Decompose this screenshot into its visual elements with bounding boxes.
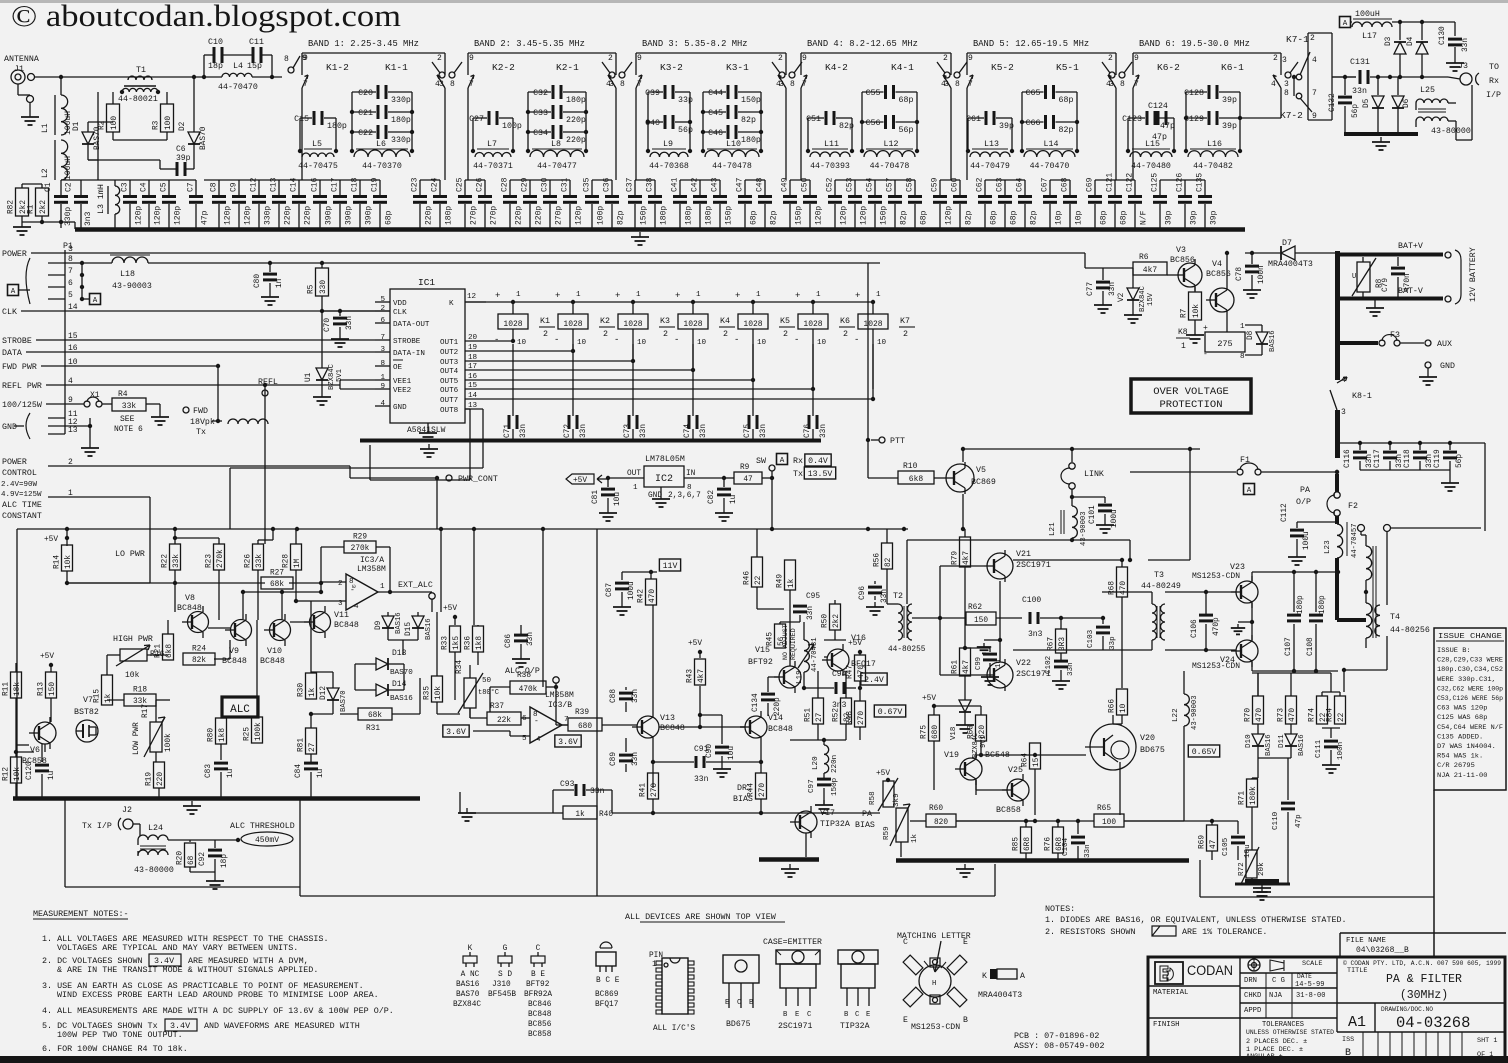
- svg-text:150: 150: [974, 617, 988, 625]
- svg-text:BC869: BC869: [595, 991, 619, 999]
- svg-text:ARE 1% TOLERANCE.: ARE 1% TOLERANCE.: [1182, 927, 1267, 937]
- svg-text:C5: C5: [160, 182, 169, 192]
- ground: [191, 801, 193, 806]
- wire tank drops: [635, 88, 637, 180]
- relay coil K6/2 1028: [811, 300, 815, 304]
- resistor R13: [46, 672, 57, 698]
- svg-text:43-90003: 43-90003: [112, 282, 152, 291]
- svg-text:82p: 82p: [770, 210, 779, 225]
- svg-text:A: A: [780, 457, 785, 465]
- svg-text:L9: L9: [663, 140, 673, 149]
- title block outer: [1148, 957, 1505, 1060]
- svg-text:POWER: POWER: [2, 250, 27, 259]
- svg-text:A NC: A NC: [461, 971, 480, 979]
- svg-text:47p: 47p: [201, 210, 210, 225]
- capacitor C97 150p: [823, 773, 825, 778]
- svg-text:33n: 33n: [632, 689, 640, 703]
- svg-text:BAS16: BAS16: [1265, 734, 1273, 756]
- relay contact K6-1 out: [1285, 72, 1291, 78]
- capacitor C126: [1184, 180, 1186, 195]
- transistor V20 BD675 darlington: [1090, 724, 1136, 770]
- svg-text:22: 22: [755, 575, 763, 585]
- gnd V21 V22 emitters: [999, 581, 1001, 662]
- svg-text:K3-1: K3-1: [726, 62, 749, 73]
- capacitor C111 100n: [1324, 740, 1338, 743]
- svg-text:150p: 150p: [880, 206, 889, 225]
- svg-text:68k: 68k: [368, 712, 382, 720]
- svg-text:14-5-99: 14-5-99: [1295, 981, 1324, 989]
- svg-text:D2: D2: [179, 121, 187, 131]
- svg-text:BZX84C: BZX84C: [453, 1001, 481, 1009]
- transistor V21 2SC1971: [987, 553, 1013, 579]
- svg-text:18p: 18p: [208, 62, 223, 71]
- svg-text:C63 WAS 120p: C63 WAS 120p: [1437, 705, 1487, 712]
- svg-text:C G: C G: [1272, 977, 1285, 985]
- svg-text:8: 8: [687, 484, 692, 492]
- svg-text:10u: 10u: [1244, 844, 1252, 858]
- svg-text:2: 2: [1108, 54, 1113, 63]
- tank L11 44-70393: [807, 118, 809, 151]
- svg-text:4k7: 4k7: [1143, 266, 1158, 275]
- resistor R42: [646, 579, 657, 605]
- svg-text:C125 WAS 68p: C125 WAS 68p: [1437, 714, 1487, 721]
- svg-text:15p: 15p: [247, 62, 262, 71]
- svg-text:C8: C8: [210, 182, 219, 192]
- svg-text:TO: TO: [1489, 63, 1499, 72]
- node feed: [202, 75, 206, 79]
- resistor R2 100: [112, 92, 114, 104]
- tank L16 44-70482: [1185, 92, 1187, 151]
- svg-text:B: B: [963, 1016, 968, 1025]
- svg-text:9: 9: [302, 54, 307, 63]
- capacitor C18: [359, 180, 361, 195]
- svg-text:2: 2: [1310, 34, 1315, 43]
- capacitor C128: [1186, 91, 1207, 93]
- svg-text:TOLERANCES: TOLERANCES: [1262, 1021, 1304, 1029]
- svg-text:BAS16: BAS16: [1298, 734, 1306, 756]
- svg-text:C4: C4: [140, 182, 149, 192]
- svg-text:2: 2: [778, 54, 783, 63]
- svg-text:L14: L14: [1044, 140, 1059, 149]
- svg-text:R1: R1: [28, 204, 36, 214]
- capacitor C107 180p: [1293, 572, 1295, 612]
- ground: [159, 412, 161, 417]
- capacitor C131 33n: [1332, 76, 1356, 78]
- svg-text:56p: 56p: [678, 126, 693, 135]
- svg-text:FINISH: FINISH: [1153, 1021, 1180, 1029]
- svg-text:CONSTANT: CONSTANT: [2, 512, 42, 521]
- capacitor C4: [148, 180, 150, 195]
- svg-text:C22: C22: [358, 129, 373, 138]
- svg-text:E: E: [963, 938, 968, 947]
- package BD675: [723, 955, 759, 983]
- svg-text:120p: 120p: [575, 206, 584, 225]
- svg-text:STROBE: STROBE: [2, 337, 32, 346]
- svg-text:6. FOR 100W CHANGE R4 TO 18k.: 6. FOR 100W CHANGE R4 TO 18k.: [42, 1044, 188, 1054]
- svg-text:C2: C2: [65, 182, 74, 192]
- svg-text:82p: 82p: [900, 210, 909, 225]
- svg-text:L2: L2: [41, 168, 50, 178]
- svg-text:1k: 1k: [788, 578, 796, 588]
- svg-text:180k: 180k: [1250, 786, 1258, 805]
- capacitor C56: [862, 121, 884, 123]
- svg-text:-: -: [794, 335, 799, 345]
- svg-text:MS1253-CDN: MS1253-CDN: [1192, 572, 1240, 581]
- svg-text:MS1253-CDN: MS1253-CDN: [1192, 662, 1240, 671]
- svg-text:D7: D7: [1282, 239, 1292, 248]
- +5V flag: [566, 474, 594, 484]
- svg-text:D8: D8: [1247, 330, 1255, 340]
- svg-text:NO ADJUST: NO ADJUST: [782, 624, 789, 660]
- svg-text:C59: C59: [931, 177, 940, 192]
- svg-text:K6: K6: [840, 317, 850, 326]
- svg-text:120p: 120p: [174, 206, 183, 225]
- capacitor C61: [968, 117, 984, 119]
- pot R34 50 t80C: [464, 678, 476, 708]
- resistor R28: [291, 544, 302, 570]
- svg-text:D11: D11: [1278, 734, 1286, 748]
- svg-text:BAS70: BAS70: [200, 126, 208, 150]
- wire mid bias rail: [659, 726, 745, 728]
- svg-text:8: 8: [790, 80, 795, 89]
- svg-text:1: 1: [816, 291, 821, 299]
- svg-text:R30: R30: [298, 683, 306, 697]
- svg-text:V7: V7: [83, 696, 93, 705]
- R85 R76 tops: [1024, 819, 1028, 823]
- svg-text:7: 7: [1312, 89, 1317, 98]
- svg-text:1028: 1028: [743, 320, 762, 329]
- wire R66 down: [1121, 715, 1123, 724]
- svg-text:BAND 1: 2.25-3.45 MHz: BAND 1: 2.25-3.45 MHz: [308, 39, 419, 49]
- resistor R73: [1286, 696, 1297, 724]
- svg-text:C28: C28: [501, 177, 510, 192]
- svg-text:K6-2: K6-2: [1157, 62, 1180, 73]
- svg-text:PCB : 07-01896-02: PCB : 07-01896-02: [1014, 1031, 1099, 1041]
- svg-text:C124: C124: [1148, 102, 1168, 111]
- svg-text:R81: R81: [298, 738, 306, 752]
- svg-text:8: 8: [1120, 80, 1125, 89]
- svg-text:G: G: [503, 945, 508, 953]
- svg-text:-: -: [854, 335, 859, 345]
- svg-text:44-70393: 44-70393: [810, 162, 850, 171]
- svg-text:VDD: VDD: [393, 300, 407, 308]
- svg-text:20k: 20k: [1258, 862, 1266, 876]
- svg-text:3: 3: [1282, 56, 1287, 65]
- terminal GND: [1425, 362, 1431, 368]
- capacitor C34: [528, 131, 551, 133]
- svg-text:180p: 180p: [705, 206, 714, 225]
- zener U1 BZX84C 5V1: [321, 311, 323, 368]
- svg-text:OUT1: OUT1: [440, 339, 459, 347]
- svg-text:150p: 150p: [795, 206, 804, 225]
- capacitor C68: [1069, 180, 1071, 195]
- resistor R52: [841, 698, 852, 724]
- capacitor C55: [862, 91, 884, 93]
- 12V battery bracket: [1455, 250, 1461, 304]
- svg-text:8: 8: [1284, 89, 1289, 98]
- svg-text:180p: 180p: [1319, 595, 1327, 614]
- svg-text:R33: R33: [442, 636, 450, 650]
- svg-text:E: E: [903, 1016, 908, 1025]
- wires V6: [44, 744, 46, 752]
- svg-text:39p: 39p: [1210, 210, 1219, 225]
- svg-text:270p: 270p: [490, 206, 499, 225]
- resistor R7 10k: [1194, 287, 1196, 292]
- svg-text:C32: C32: [533, 89, 548, 98]
- svg-text:1k8: 1k8: [476, 636, 484, 650]
- transformer T4 44-80256: [1358, 525, 1365, 532]
- capacitor C44: [703, 91, 726, 93]
- svg-text:V13: V13: [660, 714, 675, 723]
- ground: [214, 876, 216, 881]
- resistor R38 470k: [510, 681, 546, 694]
- svg-text:BC869: BC869: [971, 478, 996, 487]
- svg-text:R49: R49: [777, 574, 785, 588]
- svg-text:R50: R50: [822, 614, 830, 628]
- resistor R64: [1030, 743, 1041, 769]
- svg-text:C82: C82: [708, 490, 716, 504]
- svg-text:82: 82: [844, 712, 852, 722]
- capacitor C21: [352, 111, 376, 113]
- diode D14 BAS16: [355, 689, 376, 691]
- svg-text:C79: C79: [1382, 278, 1390, 292]
- transistor V24 MS1253-CDN: [1236, 640, 1258, 662]
- svg-text:220p: 220p: [566, 116, 586, 125]
- svg-text:BAS16: BAS16: [395, 612, 403, 634]
- svg-text:R31: R31: [366, 725, 380, 733]
- svg-text:2SC1971: 2SC1971: [1016, 561, 1051, 570]
- svg-text:2: 2: [783, 330, 788, 339]
- capacitor C46: [703, 131, 726, 133]
- capacitor C99 1u: [963, 646, 967, 650]
- svg-text:BFQ17: BFQ17: [595, 1001, 619, 1009]
- svg-text:1: 1: [1181, 342, 1186, 351]
- svg-text:VEE2: VEE2: [393, 387, 412, 395]
- relay coil K4/2 1028: [691, 300, 695, 304]
- svg-text:6k8: 6k8: [909, 475, 924, 484]
- transistor V13 BC848: [637, 716, 659, 738]
- svg-text:4: 4: [1312, 56, 1317, 65]
- svg-text:R58: R58: [869, 791, 877, 805]
- svg-text:470: 470: [1289, 708, 1297, 722]
- relay coil K2/2 1028: [571, 300, 575, 304]
- wire J3: [1448, 102, 1456, 104]
- svg-text:100p: 100p: [597, 206, 606, 225]
- resistor R85: [1021, 827, 1032, 853]
- T3 primary wires: [1102, 591, 1152, 593]
- capacitor C93 33n / R40 1k: [575, 784, 578, 796]
- capacitor C12: [258, 180, 260, 195]
- svg-text:MS1253-CDN: MS1253-CDN: [911, 1023, 960, 1032]
- svg-text:R24: R24: [192, 646, 206, 654]
- svg-text:44-70478: 44-70478: [870, 162, 910, 171]
- wire tank drops: [301, 88, 303, 180]
- svg-text:82p: 82p: [617, 210, 626, 225]
- ground: [1374, 300, 1376, 303]
- svg-text:44-70482: 44-70482: [1193, 162, 1233, 171]
- svg-text:5: 5: [68, 291, 73, 300]
- svg-text:33n: 33n: [580, 424, 588, 438]
- svg-text:C46: C46: [708, 129, 723, 138]
- svg-text:K2-1: K2-1: [556, 62, 579, 73]
- svg-text:R74: R74: [1309, 708, 1317, 722]
- svg-text:0.4V: 0.4V: [808, 457, 828, 466]
- svg-text:C118: C118: [1404, 449, 1412, 468]
- svg-text:V2: V2: [1118, 292, 1126, 302]
- svg-text:C86: C86: [505, 634, 513, 648]
- resistor R5 330: [320, 261, 324, 265]
- svg-text:ALC_O/P: ALC_O/P: [505, 666, 540, 676]
- svg-text:18p: 18p: [221, 854, 229, 868]
- svg-text:C95: C95: [806, 593, 820, 601]
- svg-text:33k: 33k: [256, 554, 264, 568]
- svg-text:R19: R19: [146, 772, 154, 786]
- svg-text:D9: D9: [375, 620, 383, 630]
- relay contact pair: [944, 72, 950, 78]
- svg-text:100u: 100u: [628, 581, 636, 600]
- svg-text:100/125W: 100/125W: [2, 400, 42, 410]
- svg-text:C52: C52: [826, 177, 835, 192]
- svg-text:SEE: SEE: [120, 415, 135, 424]
- svg-text:K7-2: K7-2: [1280, 110, 1303, 121]
- svg-text:47p: 47p: [1295, 814, 1303, 828]
- svg-text:220: 220: [157, 772, 165, 786]
- capacitor C25: [464, 180, 466, 195]
- svg-text:44-70368: 44-70368: [649, 162, 689, 171]
- svg-text:L11: L11: [824, 140, 839, 149]
- diode D13 BAS70: [355, 663, 376, 665]
- svg-text:+5V: +5V: [40, 653, 54, 661]
- svg-text:R52: R52: [833, 708, 841, 722]
- svg-text:C134: C134: [752, 693, 760, 712]
- svg-text:9: 9: [1312, 112, 1317, 121]
- svg-text:820: 820: [979, 725, 987, 739]
- svg-text:L20: L20: [812, 756, 820, 770]
- capacitor C67: [1049, 180, 1051, 195]
- capacitor C86 33n: [520, 625, 522, 634]
- svg-text:V21: V21: [1016, 550, 1031, 559]
- svg-text:2: 2: [723, 330, 728, 339]
- svg-text:1028: 1028: [863, 320, 882, 329]
- svg-text:47p: 47p: [1152, 133, 1167, 142]
- svg-text:150p: 150p: [725, 206, 734, 225]
- svg-text:AND WAVEFORMS ARE MEASURED WIT: AND WAVEFORMS ARE MEASURED WITH: [204, 1021, 360, 1031]
- svg-text:BD675: BD675: [1140, 746, 1165, 755]
- svg-text:100: 100: [1102, 819, 1116, 827]
- diode D1 BAS70: [87, 122, 89, 132]
- svg-text:9: 9: [1134, 54, 1139, 63]
- wire POWER line: [65, 252, 875, 254]
- inductor L19 44-70431: [804, 640, 809, 672]
- svg-text:V8: V8: [185, 594, 195, 603]
- svg-text:10: 10: [877, 339, 887, 347]
- svg-text:04-03268: 04-03268: [1396, 1014, 1470, 1032]
- svg-text:100uH: 100uH: [64, 111, 73, 135]
- long vertical: [596, 529, 598, 896]
- ground: [1194, 330, 1196, 335]
- svg-text:44-80021: 44-80021: [118, 95, 158, 104]
- capacitor C57: [894, 180, 896, 195]
- svg-text:K4-1: K4-1: [891, 62, 914, 73]
- svg-text:B C E: B C E: [596, 977, 620, 985]
- box verticals: [994, 864, 996, 896]
- svg-text:R42: R42: [638, 589, 646, 603]
- T2 wires: [886, 581, 888, 604]
- svg-text:3n3: 3n3: [1028, 630, 1043, 639]
- svg-text:2: 2: [1273, 54, 1278, 63]
- svg-text:BAND 2: 3.45-5.35 MHz: BAND 2: 3.45-5.35 MHz: [474, 39, 585, 49]
- capacitor C43: [719, 180, 721, 195]
- svg-text:43-90003: 43-90003: [1191, 695, 1199, 730]
- svg-text:OVER VOLTAGE: OVER VOLTAGE: [1153, 386, 1229, 398]
- relay contact pair: [1109, 72, 1115, 78]
- svg-text:470: 470: [649, 589, 657, 603]
- svg-text:IC3/B: IC3/B: [548, 701, 572, 710]
- svg-text:2: 2: [843, 330, 848, 339]
- diode D2 BAS70: [193, 122, 195, 132]
- svg-text:220p: 220p: [304, 206, 313, 225]
- svg-text:K2-2: K2-2: [492, 62, 515, 73]
- capacitor C62: [984, 180, 986, 195]
- svg-text:2: 2: [543, 330, 548, 339]
- capacitor C81 10u: [606, 476, 610, 480]
- svg-text:C: C: [536, 945, 541, 953]
- resistor R44: [756, 773, 767, 799]
- svg-text:ASSY: 08-05749-002: ASSY: 08-05749-002: [1014, 1041, 1104, 1051]
- resistor R22: [170, 544, 181, 570]
- svg-text:-: -: [1203, 350, 1208, 359]
- svg-text:L16: L16: [1207, 140, 1222, 149]
- varistor R8: [1362, 257, 1364, 262]
- wire K7 to filter: [1292, 75, 1296, 79]
- svg-text:Tx: Tx: [196, 428, 206, 437]
- capacitor C27: [473, 117, 487, 119]
- svg-text:C108: C108: [1307, 637, 1315, 656]
- wire band rail: [967, 52, 1116, 54]
- svg-text:C67: C67: [1041, 177, 1050, 192]
- svg-text:C102: C102: [1045, 655, 1053, 674]
- svg-text:2k2: 2k2: [40, 200, 48, 214]
- svg-text:10u: 10u: [614, 492, 622, 506]
- svg-text:120p: 120p: [244, 206, 253, 225]
- svg-text:8: 8: [450, 80, 455, 89]
- svg-text:C/R 26795: C/R 26795: [1437, 762, 1475, 769]
- svg-text:C23: C23: [411, 177, 420, 192]
- svg-text:CODAN: CODAN: [1187, 963, 1233, 978]
- svg-text:2: 2: [663, 330, 668, 339]
- wire J2 chain: [215, 839, 238, 841]
- svg-text:BAS70: BAS70: [390, 669, 413, 677]
- svg-text:C49: C49: [781, 177, 790, 192]
- resistor R33: [450, 626, 461, 652]
- svg-text:C: C: [855, 1011, 860, 1019]
- svg-text:100W PEP TWO TONE OUTPUT.: 100W PEP TWO TONE OUTPUT.: [57, 1030, 183, 1040]
- voltage box 2.4V: [861, 673, 887, 685]
- svg-text:V22: V22: [1016, 659, 1031, 668]
- capacitor C119: [1448, 441, 1452, 445]
- capacitor C37: [634, 180, 636, 195]
- tank L7 44-70371: [472, 118, 474, 151]
- svg-text:33n: 33n: [700, 424, 708, 438]
- svg-text:C45: C45: [708, 109, 723, 118]
- capacitor C118: [1418, 441, 1422, 445]
- svg-text:44-70470: 44-70470: [218, 83, 258, 92]
- svg-text:R66: R66: [1109, 699, 1117, 713]
- resistor R72 20k: [1251, 807, 1253, 850]
- svg-text:K1-1: K1-1: [385, 62, 408, 73]
- svg-text:33p: 33p: [678, 96, 693, 105]
- svg-text:R36: R36: [465, 636, 473, 650]
